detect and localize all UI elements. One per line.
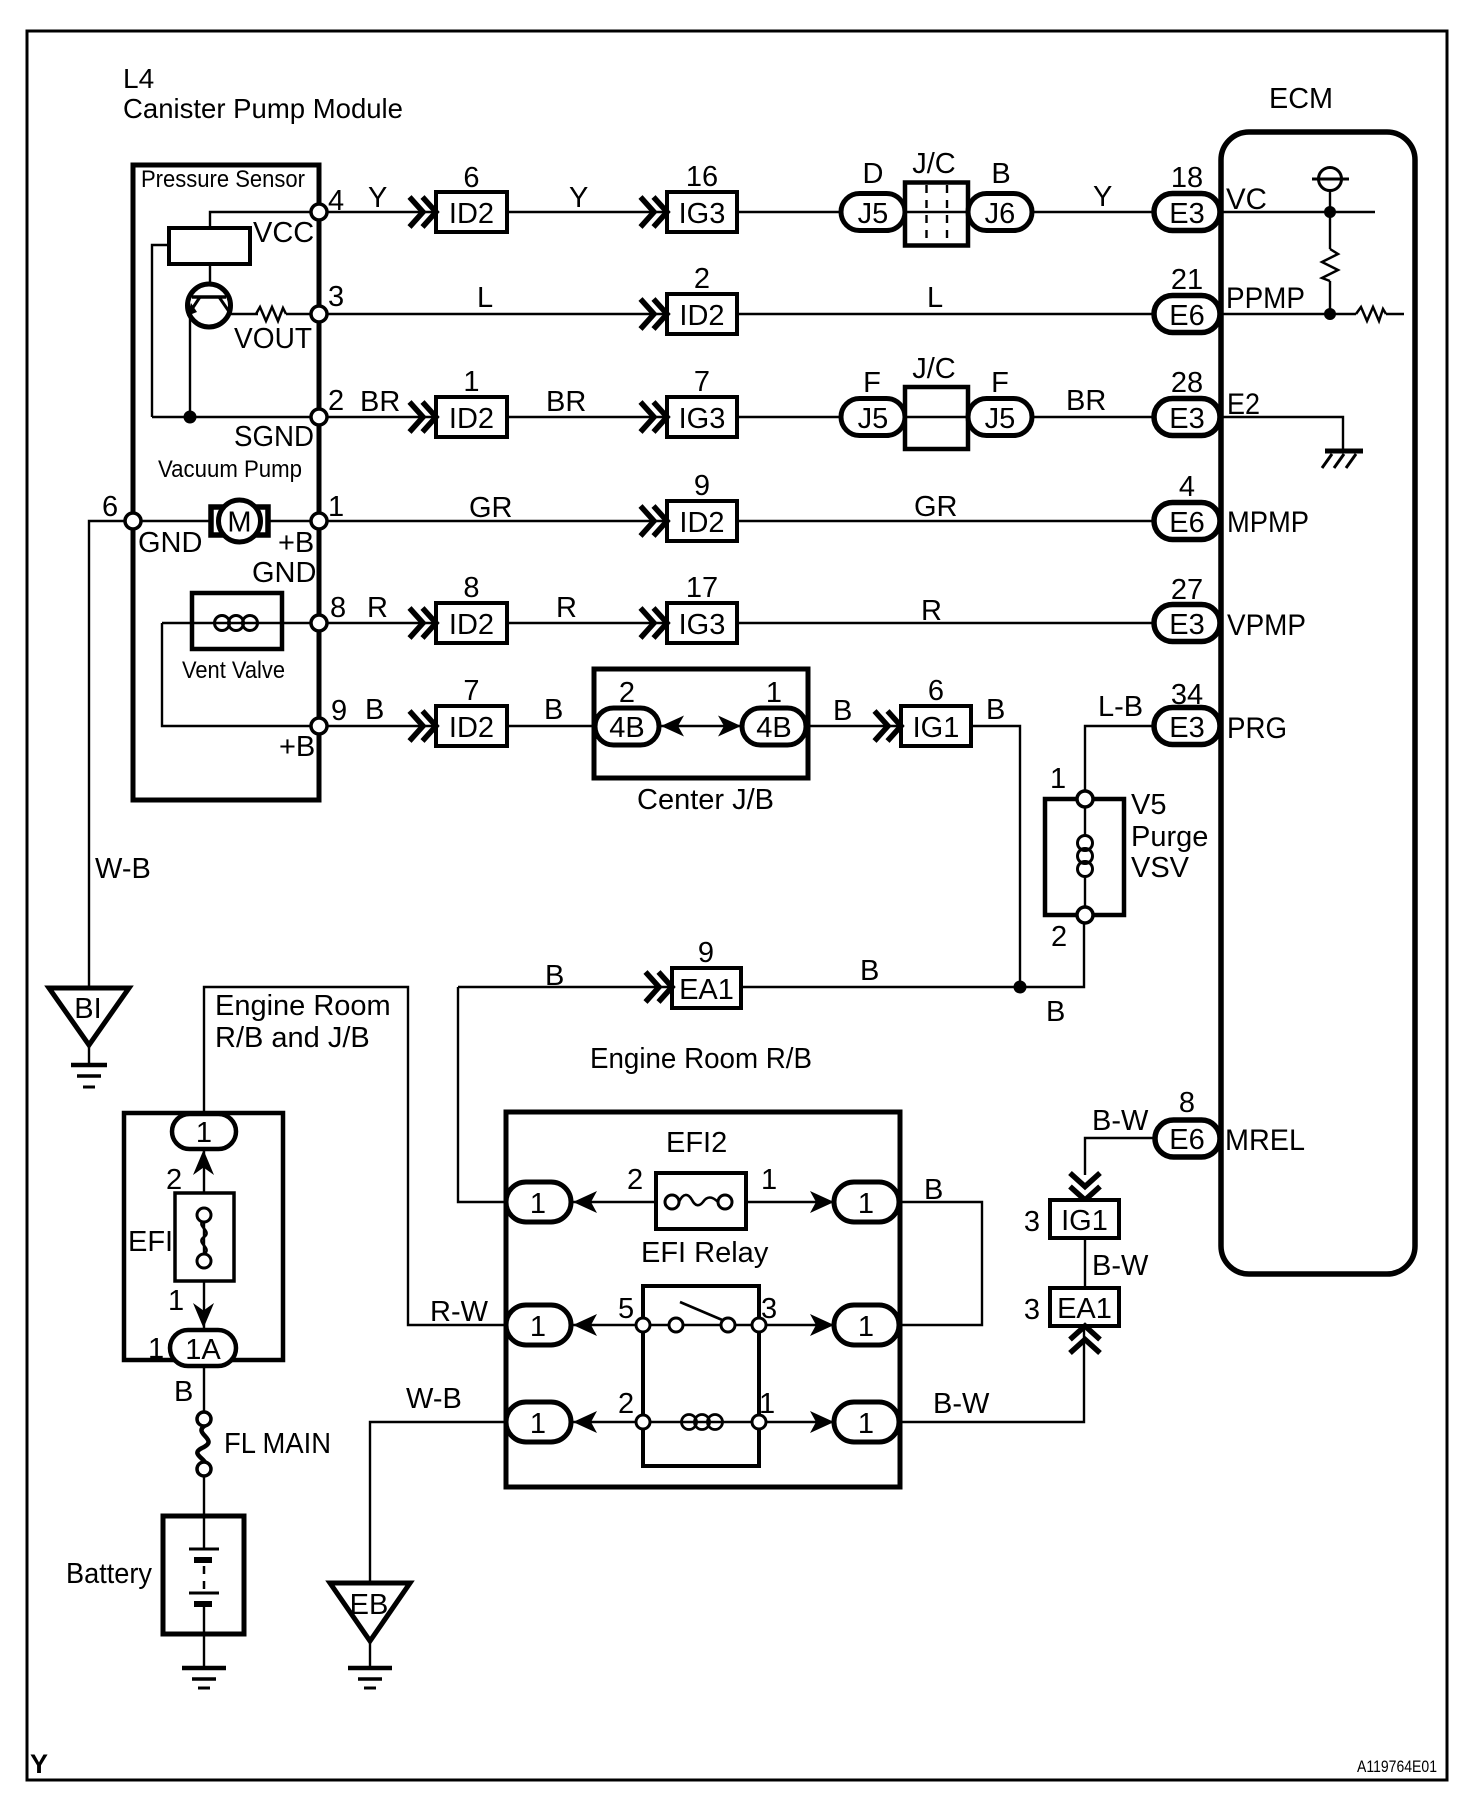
ECM box [1221, 132, 1415, 1274]
arrow down to connector 1A [193, 1303, 214, 1328]
svg-text:EFI2: EFI2 [666, 1127, 727, 1159]
svg-text:M: M [227, 507, 251, 539]
connector 1 fuse row left [506, 1182, 571, 1222]
svg-text:ID2: ID2 [449, 712, 494, 744]
connector E3 pin28 [1154, 367, 1220, 436]
svg-text:1: 1 [1050, 763, 1066, 795]
svg-text:VSV: VSV [1131, 852, 1190, 884]
svg-text:IG1: IG1 [913, 712, 960, 744]
svg-text:L: L [477, 282, 493, 314]
pin 1 [311, 513, 327, 529]
svg-text:4B: 4B [756, 712, 791, 744]
svg-text:5: 5 [618, 1293, 634, 1325]
wire EFI2 coil row [571, 1421, 834, 1423]
svg-text:27: 27 [1171, 574, 1203, 606]
svg-text:BI: BI [74, 993, 101, 1025]
svg-text:17: 17 [686, 572, 718, 604]
svg-text:1: 1 [328, 491, 344, 523]
resistor R1 vertical [1322, 249, 1338, 281]
connector ID2 row3 [436, 366, 507, 437]
arrow left coil row [573, 1411, 597, 1433]
svg-text:1: 1 [463, 366, 479, 398]
chevron up below EA1 [1070, 1326, 1100, 1353]
svg-text:IG3: IG3 [679, 609, 726, 641]
arrow right fuse row [810, 1191, 834, 1213]
svg-text:1: 1 [530, 1408, 546, 1440]
svg-text:VOUT: VOUT [234, 323, 312, 355]
ground symbol EB [348, 1668, 392, 1688]
relay block EFI2 box [506, 1112, 900, 1487]
pin number labels [102, 185, 347, 727]
connector ID2 row2 [667, 263, 737, 334]
chevron EA1 row [646, 972, 673, 1002]
svg-text:Battery: Battery [66, 1558, 152, 1590]
svg-text:V5: V5 [1131, 789, 1166, 821]
chassis ground E2 [1322, 451, 1363, 468]
wire VC internal [1222, 211, 1375, 213]
chevron row1 col2 [641, 197, 668, 227]
svg-text:3: 3 [761, 1293, 777, 1325]
svg-text:B: B [1046, 996, 1065, 1028]
chevron row5 col2 [641, 608, 668, 638]
svg-text:9: 9 [331, 695, 347, 727]
pin 4 [311, 204, 327, 220]
svg-text:J5: J5 [858, 198, 889, 230]
svg-text:18: 18 [1171, 162, 1203, 194]
ground symbol battery [182, 1668, 226, 1688]
chevron row6 IG1 [875, 711, 902, 741]
svg-text:IG3: IG3 [679, 403, 726, 435]
svg-text:2: 2 [1051, 921, 1067, 953]
svg-text:GR: GR [469, 492, 513, 524]
connector E6 pin8 MREL [1155, 1087, 1220, 1157]
svg-text:4: 4 [328, 185, 344, 217]
wire B riser EA1 row to EFI2 relay [458, 987, 506, 1202]
svg-text:ID2: ID2 [449, 403, 494, 435]
port labels ECM [1225, 183, 1309, 1157]
svg-text:28: 28 [1171, 367, 1203, 399]
svg-text:4: 4 [1179, 471, 1195, 503]
svg-text:VC: VC [1226, 183, 1267, 216]
wire EFI fuse block feed [203, 1148, 205, 1412]
svg-text:B: B [833, 695, 852, 727]
svg-text:L: L [927, 282, 943, 314]
svg-text:BR: BR [1066, 385, 1106, 417]
svg-text:EFI Relay: EFI Relay [641, 1237, 769, 1269]
svg-text:BR: BR [360, 386, 400, 418]
svg-text:FL MAIN: FL MAIN [224, 1428, 331, 1460]
svg-text:E3: E3 [1169, 198, 1204, 230]
svg-text:+B: +B [279, 731, 315, 763]
svg-text:2: 2 [694, 263, 710, 295]
svg-text:A119764E01: A119764E01 [1357, 1757, 1437, 1776]
wire L-B VSV pin1 to E3 PRG [1085, 726, 1154, 799]
svg-text:6: 6 [463, 162, 479, 194]
connector ID2 row4 [667, 470, 737, 541]
svg-text:E3: E3 [1169, 403, 1204, 435]
svg-text:3: 3 [1024, 1206, 1040, 1238]
connector 4B pin1 [742, 677, 806, 745]
wire SGND row [152, 416, 319, 418]
svg-text:1: 1 [858, 1408, 874, 1440]
fusible link FL MAIN [197, 1412, 211, 1476]
connector 1 fuse row right [834, 1182, 899, 1222]
svg-text:IG1: IG1 [1061, 1205, 1108, 1237]
connector E3 pin27 [1154, 574, 1220, 642]
svg-text:8: 8 [463, 572, 479, 604]
arrow right coil row [810, 1411, 834, 1433]
svg-text:EA1: EA1 [679, 974, 734, 1006]
svg-text:6: 6 [102, 491, 118, 523]
node SGND junction [184, 411, 197, 424]
wire row MPMP pin6 to E6 [133, 520, 1154, 522]
pin 6 [125, 513, 141, 529]
connector IG1 row6 [901, 675, 971, 746]
ground triangle BI [49, 988, 129, 1045]
svg-text:IG3: IG3 [679, 198, 726, 230]
connector 1 coil row right [834, 1402, 899, 1442]
node VC junction [1324, 206, 1336, 218]
svg-text:R: R [921, 595, 942, 627]
svg-text:34: 34 [1171, 679, 1203, 711]
vacuum pump motor M1 [211, 500, 268, 542]
svg-text:7: 7 [463, 675, 479, 707]
svg-text:Engine Room: Engine Room [215, 990, 391, 1022]
svg-text:F: F [991, 367, 1009, 399]
svg-text:2: 2 [166, 1164, 182, 1196]
wire B net EA1 row to VSV pin2 [458, 923, 1084, 987]
wire battery to ground [203, 1604, 205, 1668]
svg-text:R: R [367, 592, 388, 624]
svg-text:PRG: PRG [1227, 712, 1287, 745]
wire EB triangle to ground [369, 1641, 371, 1668]
svg-text:B: B [860, 955, 879, 987]
svg-text:+B: +B [278, 527, 314, 559]
svg-text:1: 1 [858, 1311, 874, 1343]
svg-text:9: 9 [698, 937, 714, 969]
wire row VC pin4 to E3 [319, 211, 1154, 213]
svg-text:1: 1 [530, 1311, 546, 1343]
wire row E2 pin2 to E3 [319, 416, 1154, 418]
connector IG1 pin3 [1050, 1200, 1119, 1238]
svg-text:EB: EB [350, 1589, 389, 1621]
svg-text:VPMP: VPMP [1227, 609, 1306, 642]
svg-text:J6: J6 [985, 198, 1016, 230]
svg-text:Engine Room R/B: Engine Room R/B [590, 1043, 812, 1075]
svg-text:E3: E3 [1169, 609, 1204, 641]
wire row VPMP vent valve to E3 [162, 622, 1154, 624]
wire row PPMP pin3 to E6 [319, 313, 1154, 315]
resistor VOUT [256, 307, 286, 321]
connector J5 row1 [841, 158, 905, 231]
svg-text:L-B: L-B [1098, 691, 1143, 723]
relay switch contacts [636, 1302, 766, 1332]
wire vent valve to +B pin9 [162, 623, 319, 726]
arrow up to connector 1 [193, 1150, 214, 1175]
chevron row1 col1 [410, 197, 437, 227]
svg-text:4B: 4B [609, 712, 644, 744]
svg-text:Y: Y [1093, 181, 1112, 213]
wire PPMP internal [1222, 313, 1356, 315]
connector ID2 row6 [436, 675, 507, 746]
svg-text:B: B [174, 1376, 193, 1408]
wire BI triangle to ground [88, 1045, 90, 1064]
svg-text:B-W: B-W [933, 1388, 990, 1420]
connector J5 row3 right [968, 367, 1032, 436]
wire after resistor R2 [1386, 313, 1404, 315]
svg-text:MPMP: MPMP [1227, 506, 1309, 539]
svg-text:Purge: Purge [1131, 821, 1208, 853]
svg-text:1: 1 [766, 677, 782, 709]
label V5 Purge VSV [1131, 789, 1208, 884]
svg-text:2: 2 [619, 677, 635, 709]
junction block J/C row1 [905, 148, 968, 246]
svg-text:1: 1 [759, 1388, 775, 1420]
connector 1A [170, 1330, 236, 1366]
svg-text:W-B: W-B [95, 853, 151, 885]
node B junction [1014, 981, 1027, 994]
node PPMP junction [1324, 308, 1336, 320]
wire B loop EFI2 relay outputs [899, 1202, 982, 1325]
fuse EFI [175, 1193, 234, 1281]
svg-text:ID2: ID2 [449, 198, 494, 230]
junction block Center J/B [594, 669, 808, 816]
pin 3 [311, 306, 327, 322]
wire B-W MREL E6 to IG1 [1085, 1138, 1155, 1175]
pressure sensor element U1 [169, 228, 250, 264]
connector IG3 row3 [667, 366, 737, 437]
connector 1 switch row left [506, 1305, 571, 1345]
svg-text:B: B [924, 1174, 943, 1206]
arrow right switch row [810, 1314, 834, 1336]
svg-text:Y: Y [569, 182, 588, 214]
svg-text:E6: E6 [1169, 1124, 1204, 1156]
svg-text:J5: J5 [858, 403, 889, 435]
connector 1 coil row left [506, 1402, 571, 1442]
arrow left Center J/B [661, 716, 684, 737]
svg-text:8: 8 [1179, 1087, 1195, 1119]
connector J5 row3 left [841, 367, 905, 436]
svg-text:1: 1 [168, 1285, 184, 1317]
svg-text:Canister Pump Module: Canister Pump Module [123, 93, 403, 124]
wire row PRG pin9 to IG1 and down to node B [319, 726, 1020, 987]
ground symbol BI [71, 1065, 107, 1087]
connector EA1 pin3 [1050, 1288, 1119, 1326]
junction block J/C row3 [905, 353, 968, 449]
chevron row3 col1 [410, 402, 437, 432]
wire transistor emitter to SGND node [189, 314, 191, 417]
svg-text:EA1: EA1 [1057, 1293, 1112, 1325]
svg-text:6: 6 [928, 675, 944, 707]
svg-text:B: B [986, 694, 1005, 726]
svg-text:MREL: MREL [1225, 1124, 1305, 1157]
svg-text:ID2: ID2 [449, 609, 494, 641]
connector E3 pin18 [1154, 162, 1220, 231]
svg-text:3: 3 [1024, 1294, 1040, 1326]
connector 1 switch row right [834, 1305, 899, 1345]
arrow right Center J/B [718, 716, 741, 737]
sensor module labels [141, 166, 305, 684]
wire W-B pin6 GND to BI ground [89, 521, 133, 988]
wire E2 internal to ground [1222, 417, 1343, 450]
connector 4B pin2 [595, 677, 659, 745]
wire resistor to PPMP [1329, 281, 1331, 314]
fuse EFI relay [656, 1173, 746, 1229]
pin 2 [311, 409, 327, 425]
connector EA1 pin9 [672, 937, 741, 1008]
wire VOUT transistor to pin3 [230, 313, 258, 315]
svg-text:GND: GND [252, 557, 316, 589]
svg-text:Vacuum Pump: Vacuum Pump [158, 456, 302, 483]
svg-text:E6: E6 [1169, 507, 1204, 539]
chevron down MREL [1070, 1173, 1100, 1200]
chevron row4 col2 [641, 506, 668, 536]
wire B-W EFI2 coil to EA1 riser [899, 1327, 1084, 1422]
svg-text:8: 8 [330, 592, 346, 624]
arrow left switch row [573, 1314, 597, 1336]
svg-text:GND: GND [138, 527, 202, 559]
svg-text:ECM: ECM [1269, 83, 1333, 115]
svg-text:1: 1 [148, 1333, 164, 1365]
pin 9 [311, 718, 327, 734]
svg-text:ID2: ID2 [679, 507, 724, 539]
arrow left fuse row [573, 1191, 597, 1213]
ground triangle EB [330, 1583, 410, 1641]
label Engine Room R/B and J/B [215, 990, 391, 1054]
svg-text:7: 7 [694, 366, 710, 398]
chevron row5 col1 [410, 608, 437, 638]
EFI fuse block box [124, 1113, 283, 1360]
connector ID2 row1 [436, 162, 507, 232]
svg-text:1: 1 [761, 1164, 777, 1196]
svg-text:1: 1 [530, 1188, 546, 1220]
relay coil L2 [636, 1415, 766, 1430]
svg-text:9: 9 [694, 470, 710, 502]
chevron row2 col2 [641, 299, 668, 329]
svg-text:Y: Y [30, 1749, 48, 1779]
connector 1 top of EFI block [172, 1114, 236, 1149]
svg-text:EFI: EFI [128, 1226, 173, 1258]
svg-text:1A: 1A [185, 1334, 221, 1366]
svg-text:Center J/B: Center J/B [637, 784, 774, 816]
svg-text:J/C: J/C [912, 353, 956, 385]
chevron row6 col1 [410, 711, 437, 741]
svg-text:R-W: R-W [430, 1296, 489, 1328]
connector IG3 row1 [667, 161, 737, 232]
svg-text:SGND: SGND [234, 421, 314, 453]
svg-text:E3: E3 [1169, 712, 1204, 744]
svg-text:1: 1 [196, 1117, 212, 1149]
connector E3 pin34 [1154, 679, 1220, 745]
wire EFI2 fuse row [571, 1201, 834, 1203]
svg-text:Vent Valve: Vent Valve [182, 657, 285, 684]
svg-text:L4: L4 [123, 63, 154, 94]
chevron row3 col2 [641, 402, 668, 432]
svg-text:B: B [991, 158, 1010, 190]
wire battery feed B [203, 1476, 205, 1549]
svg-text:F: F [863, 367, 881, 399]
wire VCC box left stub to SGND [152, 245, 169, 417]
svg-text:21: 21 [1171, 264, 1203, 296]
wire pin4 to VCC box [210, 212, 319, 228]
svg-text:E2: E2 [1227, 388, 1260, 421]
svg-text:B-W: B-W [1092, 1105, 1149, 1137]
svg-text:Y: Y [368, 182, 387, 214]
svg-text:PPMP: PPMP [1226, 282, 1305, 315]
svg-text:W-B: W-B [406, 1383, 462, 1415]
svg-text:R: R [556, 592, 577, 624]
svg-text:B-W: B-W [1092, 1250, 1149, 1282]
transistor Q1 [187, 284, 231, 327]
pin 8 [311, 615, 327, 631]
wire VCC box to transistor [209, 264, 211, 297]
valve V5 Purge VSV [1045, 791, 1124, 923]
svg-text:E6: E6 [1169, 300, 1204, 332]
svg-text:R/B and J/B: R/B and J/B [215, 1022, 370, 1054]
svg-text:GR: GR [914, 491, 958, 523]
svg-text:B: B [545, 960, 564, 992]
title L4 Canister Pump Module [123, 63, 403, 124]
ECM internal VC supply symbol [1312, 168, 1349, 213]
svg-text:BR: BR [546, 386, 586, 418]
connector E6 pin4 [1154, 471, 1220, 540]
svg-text:ID2: ID2 [679, 300, 724, 332]
svg-text:16: 16 [686, 161, 718, 193]
svg-text:D: D [863, 158, 884, 190]
wire R-W engine room riser [204, 987, 506, 1325]
wire VC to resistor [1329, 212, 1331, 249]
svg-text:2: 2 [618, 1388, 634, 1420]
canister pump module box [133, 165, 319, 800]
svg-text:J5: J5 [985, 403, 1016, 435]
wire EFI2 switch row [571, 1324, 834, 1326]
svg-text:3: 3 [328, 281, 344, 313]
svg-text:B: B [365, 694, 384, 726]
connector IG3 row5 [667, 572, 737, 643]
connector E6 pin21 [1154, 264, 1220, 333]
svg-text:1: 1 [858, 1188, 874, 1220]
svg-text:J/C: J/C [912, 148, 956, 180]
svg-text:VCC: VCC [253, 217, 314, 249]
connector ID2 row5 [436, 572, 507, 643]
wire B-W IG1 to EA1 [1084, 1238, 1086, 1288]
relay frame box [643, 1286, 759, 1466]
svg-text:B: B [544, 694, 563, 726]
svg-text:Pressure Sensor: Pressure Sensor [141, 166, 305, 193]
battery B1 [163, 1516, 244, 1634]
svg-text:2: 2 [328, 385, 344, 417]
resistor R2 horizontal [1356, 307, 1386, 321]
svg-text:2: 2 [627, 1164, 643, 1196]
wire W-B EFI2 to EB ground [370, 1422, 506, 1583]
connector J6 row1 [968, 158, 1032, 231]
vent valve solenoid L1 [192, 593, 282, 649]
